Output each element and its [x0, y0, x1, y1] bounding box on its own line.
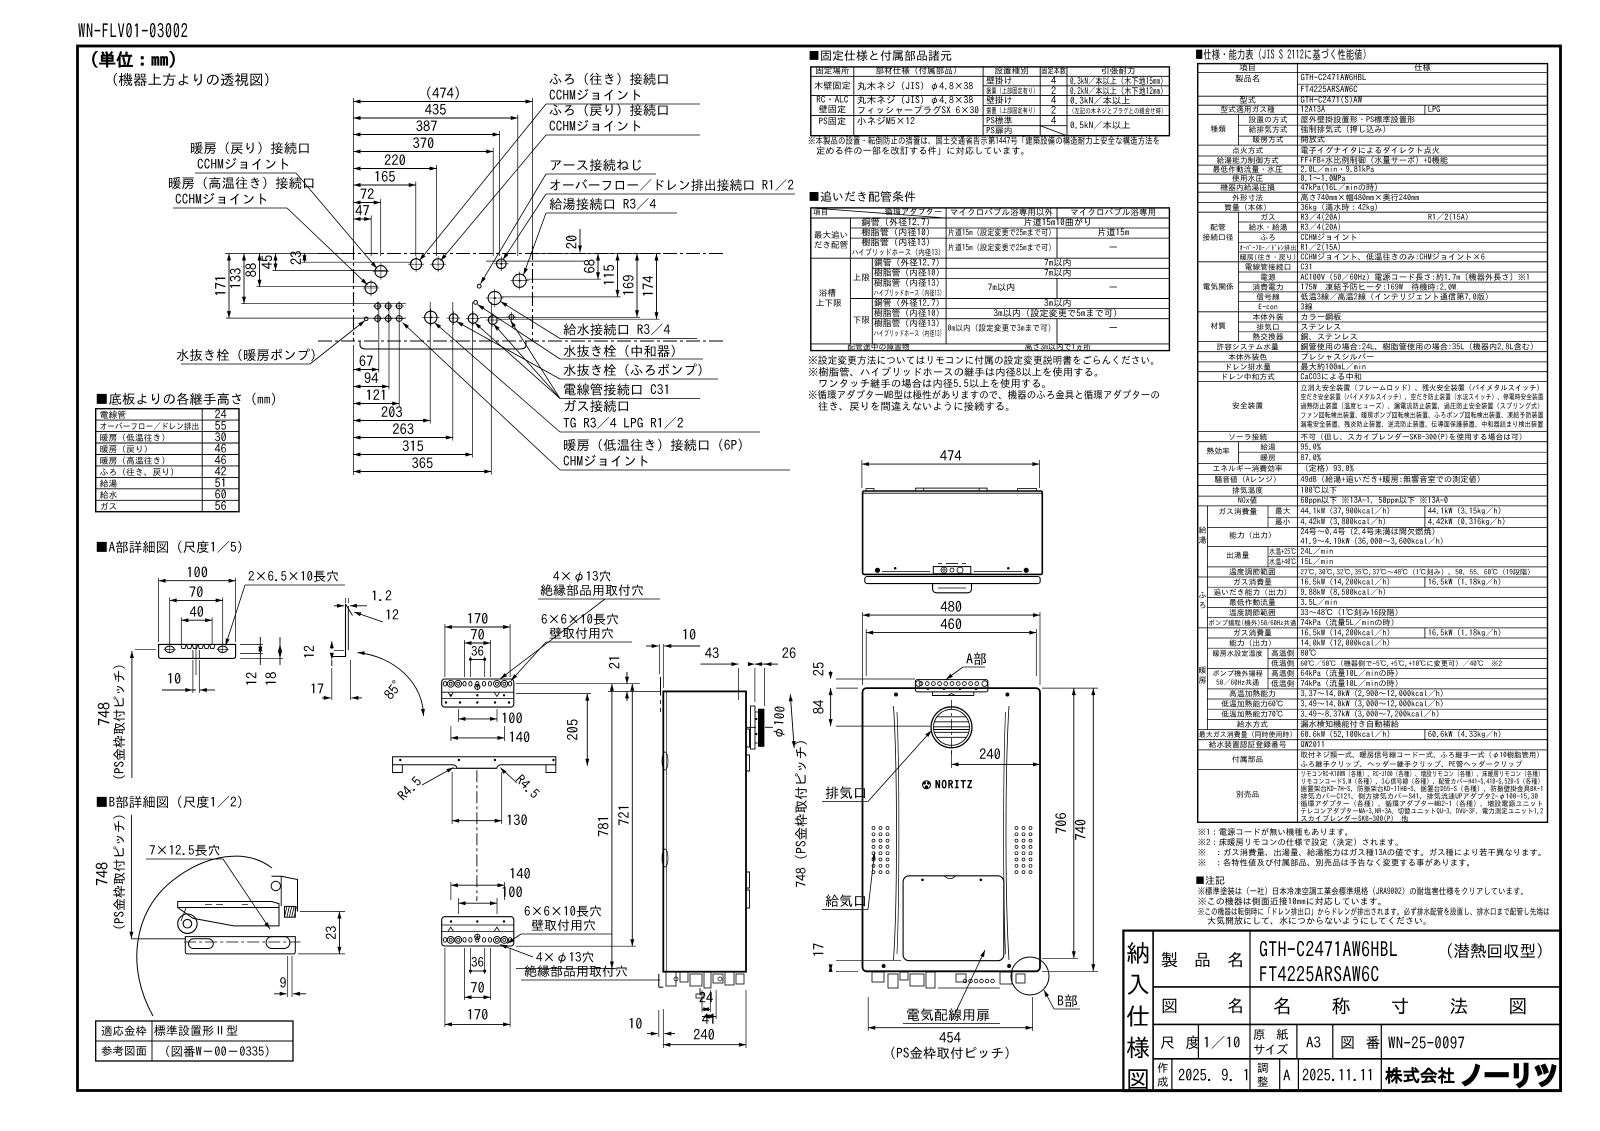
dim 130: [451, 772, 453, 824]
right dim extension lines: [536, 253, 661, 255]
label 給湯接続口: [550, 198, 656, 210]
top bracket holes: [444, 682, 447, 687]
port 暖房(高温往き): [365, 282, 377, 294]
bottom dim extension lines: [378, 302, 380, 373]
side view wall bracket bottom: [658, 974, 660, 987]
top view top band line: [863, 492, 1043, 494]
B-detail slots: [189, 939, 214, 949]
side bottom pipes: [666, 972, 676, 986]
side view front details: [665, 691, 667, 971]
dim v 174: [656, 254, 658, 320]
A-detail dim 17: [331, 668, 333, 700]
B-detail dim 9: [287, 956, 289, 997]
label 給水接続口: [564, 323, 670, 335]
label 水抜き栓（中和器）: [564, 345, 675, 357]
port 給水: [488, 291, 501, 304]
port port: [488, 316, 497, 325]
label 水抜き栓（ふろポンプ）: [564, 363, 702, 376]
port center dots: [501, 263, 503, 265]
B-detail boundary arc: [137, 856, 272, 1016]
spec rows heating: [1199, 666, 1206, 673]
label アース接続ねじ: [551, 159, 641, 171]
dim v 169: [636, 254, 638, 318]
bracket dims 170/70/36 top: [445, 626, 510, 628]
label 4x13 bottom: [536, 952, 593, 964]
dim 121: [354, 403, 400, 405]
side bottom dims: [701, 990, 703, 1012]
plan view: unit outline (dash-dot): [318, 253, 725, 255]
port 給湯: [513, 274, 526, 287]
spec table notes: [1198, 828, 1347, 836]
label ふろ（戻り）接続口: [550, 104, 668, 116]
spec rows efficiency: [1207, 447, 1230, 454]
dim 84: [836, 687, 858, 689]
A-detail 748 pitch label: [98, 702, 110, 725]
fixing spec table grid: [811, 67, 1170, 136]
port ふろ(往き): [411, 259, 422, 270]
dim 203: [354, 420, 431, 422]
dim 94: [354, 386, 390, 388]
top dim extension lines: [353, 98, 355, 250]
dim 72: [354, 202, 381, 204]
spec table title: [1196, 48, 1365, 60]
bottom bracket center cross: [475, 934, 480, 939]
A-detail dim 12 left: [331, 641, 333, 649]
NORITZ logo: [936, 780, 972, 788]
dim 370: [354, 151, 494, 153]
side dim 26: [754, 668, 756, 702]
top view center block: [933, 567, 971, 574]
label 電線管接続口 C31: [564, 383, 667, 395]
spec table row lines: [1198, 72, 1548, 74]
spec table group vlines: [1238, 114, 1240, 145]
A-detail holes: [165, 646, 174, 652]
exhaust opening: [931, 707, 972, 748]
dim v 45: [275, 254, 277, 271]
side view body: [663, 691, 746, 971]
edge screws: [894, 693, 897, 696]
side bottom dim 10: [658, 1010, 660, 1037]
plan view: front lip: [360, 341, 526, 349]
spec rows upper: [1235, 75, 1259, 83]
B-detail top plate: [178, 902, 279, 908]
label 暖房（低温往き）接続口（6P）: [564, 439, 742, 451]
top view connector: [933, 584, 972, 593]
port small port: [509, 315, 514, 320]
top bracket dots: [450, 695, 452, 697]
rail R4.5 labels: [397, 776, 422, 801]
label 6x6x10 top: [542, 614, 618, 625]
B-detail 748 pitch label: [96, 862, 108, 885]
title block rows: [1153, 986, 1561, 988]
B-detail bolt: [178, 914, 197, 933]
drain plug (pump): [364, 317, 368, 321]
phi100 dim: [790, 694, 794, 748]
A-detail L-profile sketch: [333, 604, 346, 657]
dim 474 top view: [861, 460, 863, 488]
dim 315: [354, 454, 473, 456]
dim v 23: [304, 254, 306, 263]
dim 17: [836, 960, 901, 962]
label 4x13 top: [553, 571, 610, 583]
dim 205: [516, 693, 591, 695]
top view outline: [863, 491, 1043, 574]
A-detail plate teeth: [181, 644, 215, 648]
bracket dims 36/70/170 below bottom bracket: [469, 948, 471, 974]
dim 387: [354, 134, 500, 136]
A-detail dims 12/18: [240, 643, 263, 645]
front view body: [863, 688, 1041, 971]
left dim extension lines: [225, 253, 349, 255]
B-detail base plate: [185, 937, 295, 954]
B-detail label 7x12.5: [150, 845, 220, 856]
label 6x6x10 bottom: [525, 906, 601, 917]
logo noritsu heavy: [1464, 1064, 1555, 1086]
port 水抜き(ふろ): [449, 314, 458, 323]
front top bracket: [915, 680, 988, 692]
port オーバーフロー: [497, 259, 507, 269]
front bottom connectors: [872, 972, 884, 982]
port 暖房(戻り): [375, 266, 387, 278]
A-detail dims 100/70/40: [159, 580, 236, 582]
reheating table grid: [811, 208, 1170, 351]
scale row: [1197, 1024, 1199, 1058]
joint height table: [96, 409, 239, 512]
top view bottom lip: [865, 577, 1040, 584]
side dim 43: [738, 668, 740, 700]
company logo: [1386, 1067, 1454, 1083]
label 給気口: [826, 894, 865, 907]
reheating pipe table title: [810, 191, 916, 202]
port 電線管: [468, 314, 478, 324]
B-detail wall profile: [272, 876, 298, 911]
dim 365: [354, 471, 492, 473]
dim 454: [867, 997, 869, 1031]
A-detail title: [97, 541, 242, 553]
side view wall bracket top: [660, 677, 662, 696]
top view screw dots: [875, 568, 879, 572]
bottom bracket hooks: [448, 927, 453, 931]
date row: [1171, 1059, 1173, 1091]
A-detail dim 12 tilt: [387, 609, 399, 619]
reheating table left labels: [814, 231, 847, 239]
top bracket center cross: [475, 684, 480, 689]
title block outer: [1123, 931, 1561, 1091]
top wall bracket: [442, 679, 514, 707]
dims 706/740: [1042, 687, 1098, 689]
dim v 133: [243, 254, 245, 304]
A-detail bracket plate: [159, 644, 236, 658]
A-detail dim 1.2: [334, 605, 344, 607]
title block column label: [1127, 942, 1148, 964]
joint height table title: [97, 393, 275, 405]
dim v 171: [228, 254, 230, 319]
top view top bumps: [866, 489, 874, 491]
spec rows bath: [1199, 592, 1206, 598]
bracket dims 100/140 below top bracket: [458, 709, 460, 722]
B-detail rubber pad hatch: [285, 906, 296, 917]
748 pitch label front: [795, 741, 807, 887]
top bracket hooks: [448, 692, 453, 696]
fixing note: [809, 136, 1159, 144]
applicable frame table: [96, 1021, 293, 1061]
label 暖房（高温往き）接続口: [169, 177, 313, 189]
port ガス: [425, 311, 437, 323]
bracket dims 140/100 above bottom bracket: [450, 882, 452, 900]
exhaust duct side: [751, 706, 756, 749]
dim v 88: [259, 254, 261, 287]
bottom bracket holes: [444, 938, 447, 943]
port ふろ(戻り): [433, 259, 444, 270]
dim 47: [354, 218, 372, 220]
earth screw: [477, 284, 481, 288]
front view dims 480/460: [862, 612, 864, 685]
dim 20 (earth screw): [579, 229, 581, 253]
A-part label: [966, 652, 986, 665]
drawing name row: [1163, 999, 1177, 1013]
label 水抜き栓（暖房ポンプ）: [177, 348, 315, 361]
dim v 115: [617, 254, 619, 297]
B-detail dim 23: [300, 911, 345, 913]
front bottom dots: [963, 979, 967, 983]
label ガス接続口: [565, 400, 628, 412]
B-detail foot body: [178, 908, 279, 926]
fixing spec table texts: [816, 67, 849, 75]
B-detail hole: [271, 881, 280, 890]
spec table header: [1240, 64, 1255, 71]
dim v 68: [597, 254, 599, 280]
side view back tabs: [746, 729, 750, 747]
B-detail centerline: [184, 941, 300, 943]
dim 25: [836, 678, 915, 680]
dim 263: [354, 437, 453, 439]
fixing spec table title: [810, 50, 952, 61]
spec rows hot water: [1199, 526, 1206, 533]
spec table LPG vlines: [1424, 105, 1426, 114]
drawing number header: [78, 23, 187, 37]
B-part circle: [1011, 957, 1049, 995]
dim （474）: [354, 101, 533, 103]
label オーバーフロー／ドレン排出接続口: [550, 179, 793, 191]
bracket centerline: [476, 770, 478, 901]
bottom wall bracket: [442, 917, 514, 946]
intake dot grids: [872, 827, 875, 830]
dim 435: [354, 117, 518, 119]
B-part label: [1058, 994, 1077, 1007]
reheating notes: [809, 355, 1153, 364]
B-detail title: [97, 796, 242, 808]
side dim 21: [626, 672, 628, 683]
drain plug (neutralizer): [474, 301, 478, 305]
front panel ridges: [894, 706, 897, 960]
CHM joint cluster (6P): [375, 303, 381, 309]
A-detail center slot: [192, 650, 194, 658]
reheating table header diagonal: [811, 208, 946, 218]
dim 240 exhaust: [951, 750, 953, 768]
dim 67: [354, 369, 379, 371]
A-detail dim 10: [162, 689, 196, 691]
label 排気口: [826, 786, 865, 799]
unit note: [93, 51, 175, 67]
dim 165: [354, 184, 416, 186]
reheating rows: [862, 218, 929, 226]
side dim 10 top: [659, 644, 661, 674]
A-detail 85 deg arc: [358, 653, 424, 717]
spec table outer: [1198, 64, 1548, 823]
view caption: [114, 73, 269, 86]
mounting rail: [393, 757, 556, 769]
dims 781/721: [516, 945, 636, 947]
top view handle: [916, 488, 987, 491]
label 電気配線用扉: [907, 1008, 989, 1021]
product name row: [1249, 931, 1251, 1025]
label 暖房（戻り）接続口: [191, 142, 309, 154]
wiring door: [903, 876, 1004, 961]
A-detail label 2x6.5x10: [249, 571, 338, 582]
diagonal slash cell: [1040, 126, 1067, 136]
label ふろ（往き）接続口: [550, 73, 668, 85]
dim 220: [354, 168, 437, 170]
